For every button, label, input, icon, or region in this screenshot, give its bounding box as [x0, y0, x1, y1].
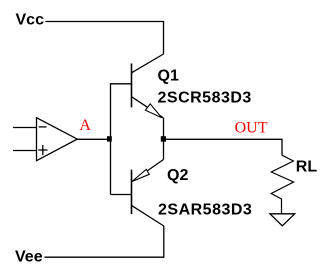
transistor Q2 (PNP) — [132, 160, 164, 227]
svg-text:Vee: Vee — [15, 249, 43, 266]
wire Q1 emitter to OUT — [163, 118, 165, 140]
junction OUT — [161, 136, 166, 142]
svg-text:2SAR583D3: 2SAR583D3 — [158, 202, 252, 219]
ground — [270, 214, 295, 226]
op-amp U1 — [13, 118, 77, 161]
wire Vcc rail — [45, 22, 163, 55]
resistor RL — [271, 155, 293, 213]
svg-text:2SCR583D3: 2SCR583D3 — [158, 90, 252, 107]
svg-text:Q2: Q2 — [167, 167, 188, 184]
wire op-amp output — [77, 138, 107, 140]
svg-text:A: A — [79, 117, 91, 134]
svg-text:Q1: Q1 — [158, 67, 179, 84]
wire OUT rail — [166, 139, 282, 155]
wire Q1 base to node A — [111, 84, 132, 195]
junction node A — [107, 136, 112, 141]
svg-text:OUT: OUT — [235, 119, 268, 136]
wire OUT to Q2 emitter — [163, 139, 165, 159]
svg-text:RL: RL — [296, 159, 318, 176]
transistor Q1 (NPN) — [132, 54, 164, 118]
svg-text:Vcc: Vcc — [16, 12, 45, 29]
wire node A to Q2 base — [111, 194, 132, 196]
wire Q2 collector to Vee rail — [44, 226, 163, 257]
